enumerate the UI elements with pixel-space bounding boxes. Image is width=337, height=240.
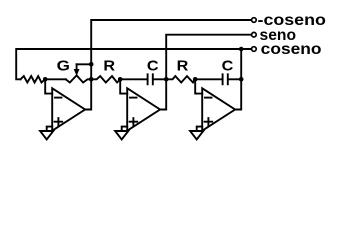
op-amp U3 plus label xyxy=(205,121,213,123)
resistor R2 (op2 out to op3 in) xyxy=(166,76,195,82)
node wiper junction xyxy=(89,62,94,67)
ground 2 xyxy=(115,131,128,139)
op-amp U3 plus input wire to ground xyxy=(197,127,203,131)
wire coseno feedback line top xyxy=(16,49,251,79)
svg-text:R: R xyxy=(103,58,115,74)
ground 1 xyxy=(40,131,53,139)
op-amp U1 triangle xyxy=(52,88,85,130)
op-amp U3 minus input wire xyxy=(195,79,202,93)
op-amp U2 minus input wire xyxy=(120,79,127,93)
op-amp U1 minus input wire xyxy=(45,79,52,93)
op-amp U2 output wire xyxy=(160,79,166,109)
resistor R feedback (coseno to op1 input) xyxy=(21,76,46,82)
svg-text:G: G xyxy=(57,57,70,74)
ground 3 xyxy=(190,131,203,139)
capacitor C2 plates xyxy=(222,74,224,84)
op-amp U3 minus label xyxy=(205,97,212,99)
op-amp U1 plus input wire to ground xyxy=(47,127,53,131)
svg-text:C: C xyxy=(147,58,159,74)
op-amp U1 minus label xyxy=(55,97,62,99)
op-amp U2 plus label xyxy=(130,121,138,123)
capacitor C2 left wire xyxy=(195,78,222,80)
op-amp U3 output wire xyxy=(235,79,241,109)
op-amp U1 plus label xyxy=(55,121,63,123)
terminal -coseno xyxy=(252,18,257,23)
capacitor C2 right wire xyxy=(229,78,242,80)
node op3 output junction xyxy=(239,77,244,82)
wire op1 input node to pot xyxy=(45,78,65,80)
wire seno output line xyxy=(166,35,251,80)
potentiometer G wiper wire xyxy=(77,63,92,65)
capacitor C1 right wire xyxy=(154,78,167,80)
node op1 output junction xyxy=(89,77,94,82)
op-amp U2 plus input wire to ground xyxy=(122,127,128,131)
capacitor C1 left wire xyxy=(120,78,147,80)
op-amp U2 minus label xyxy=(130,97,137,99)
op-amp U3 triangle xyxy=(202,88,235,130)
resistor R1 (op1 out to op2 in) xyxy=(91,76,120,82)
svg-text:coseno: coseno xyxy=(261,41,322,58)
node coseno tee junction xyxy=(239,47,244,52)
op-amp U1 output wire xyxy=(85,79,91,109)
terminal coseno xyxy=(252,47,257,52)
terminal seno xyxy=(252,32,257,37)
node op1 input junction xyxy=(43,77,48,82)
wire -coseno output line xyxy=(91,20,251,79)
node op3 input junction xyxy=(193,77,198,82)
capacitor C1 plates xyxy=(147,74,149,84)
svg-text:C: C xyxy=(222,58,234,74)
potentiometer G wiper arrow xyxy=(76,64,78,69)
node op2 input junction xyxy=(118,77,123,82)
svg-text:R: R xyxy=(177,58,189,74)
potentiometer G element xyxy=(66,75,92,82)
node op2 output junction xyxy=(164,77,169,82)
wire op3 output riser xyxy=(240,49,242,79)
op-amp U2 triangle xyxy=(127,88,160,130)
